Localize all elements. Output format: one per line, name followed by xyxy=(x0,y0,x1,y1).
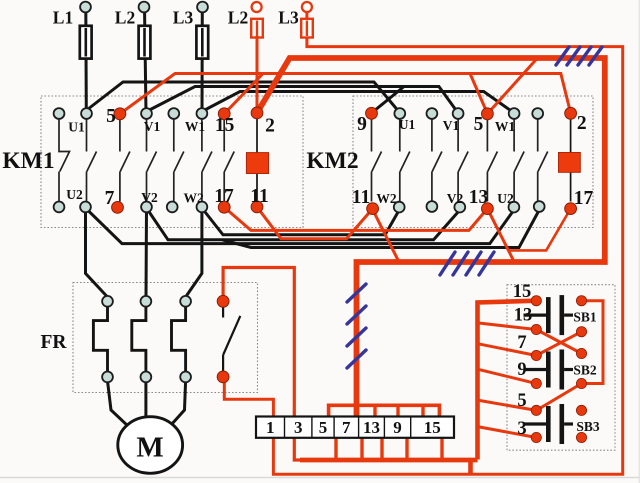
svg-text:1: 1 xyxy=(266,418,275,437)
svg-text:W1: W1 xyxy=(495,119,516,134)
svg-text:SB3: SB3 xyxy=(576,419,600,434)
svg-text:3: 3 xyxy=(517,419,526,439)
svg-text:9: 9 xyxy=(357,114,367,135)
svg-text:2: 2 xyxy=(577,113,587,134)
svg-text:KM2: KM2 xyxy=(306,148,358,174)
svg-text:W2: W2 xyxy=(183,191,204,206)
svg-text:KM1: KM1 xyxy=(2,148,54,174)
svg-text:FR: FR xyxy=(41,332,68,353)
svg-text:5: 5 xyxy=(319,418,328,437)
svg-text:L2: L2 xyxy=(228,8,248,28)
svg-text:U1: U1 xyxy=(399,117,416,132)
svg-text:13: 13 xyxy=(363,418,380,437)
svg-text:V2: V2 xyxy=(141,190,158,205)
svg-text:9: 9 xyxy=(393,418,402,437)
svg-text:U2: U2 xyxy=(497,191,514,206)
svg-text:5: 5 xyxy=(106,106,116,127)
svg-text:2: 2 xyxy=(265,116,275,137)
svg-text:V1: V1 xyxy=(443,118,460,133)
svg-text:7: 7 xyxy=(342,418,351,437)
svg-text:U2: U2 xyxy=(66,187,83,202)
svg-text:11: 11 xyxy=(352,187,370,208)
svg-text:17: 17 xyxy=(574,188,594,209)
svg-text:13: 13 xyxy=(469,187,489,208)
svg-text:L2: L2 xyxy=(115,8,135,28)
svg-text:7: 7 xyxy=(105,188,115,209)
svg-text:W2: W2 xyxy=(376,191,397,206)
svg-text:U1: U1 xyxy=(68,120,85,135)
svg-text:13: 13 xyxy=(514,306,533,326)
svg-text:7: 7 xyxy=(517,333,526,353)
svg-text:L3: L3 xyxy=(278,8,299,28)
svg-text:M: M xyxy=(136,432,163,464)
svg-text:17: 17 xyxy=(214,186,234,207)
svg-text:V1: V1 xyxy=(144,119,161,134)
svg-text:5: 5 xyxy=(517,391,526,411)
svg-text:11: 11 xyxy=(250,186,268,207)
svg-text:15: 15 xyxy=(424,418,441,437)
svg-text:5: 5 xyxy=(474,114,484,135)
svg-text:L3: L3 xyxy=(173,8,194,28)
svg-text:SB2: SB2 xyxy=(573,363,597,378)
svg-text:3: 3 xyxy=(294,418,303,437)
svg-text:9: 9 xyxy=(517,360,526,380)
svg-text:L1: L1 xyxy=(53,8,73,28)
svg-text:15: 15 xyxy=(513,282,532,302)
svg-text:15: 15 xyxy=(215,115,235,136)
svg-text:SB1: SB1 xyxy=(573,310,597,325)
svg-text:W1: W1 xyxy=(185,119,206,134)
svg-text:V2: V2 xyxy=(447,191,464,206)
